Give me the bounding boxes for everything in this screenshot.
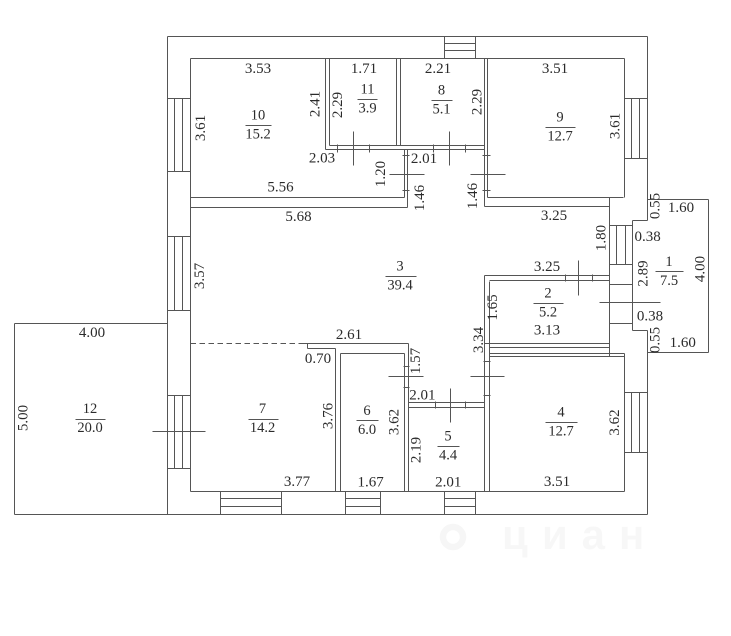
svg-text:1.65: 1.65 [485, 294, 501, 320]
svg-text:3.51: 3.51 [544, 474, 570, 490]
svg-text:циан: циан [502, 511, 658, 558]
room 2 top wall [485, 275, 610, 277]
svg-text:2.29: 2.29 [469, 89, 485, 115]
rooms 11 and 8 bottom wall [330, 145, 485, 147]
svg-text:3.25: 3.25 [541, 208, 567, 224]
svg-text:0.70: 0.70 [305, 351, 331, 367]
svg-text:1.46: 1.46 [465, 182, 481, 209]
svg-text:10: 10 [251, 107, 266, 123]
wall rooms 8/9 and lobby right [484, 59, 486, 207]
room 11 left wall [325, 59, 327, 150]
annex room 1 top wall [648, 199, 709, 201]
window right W6 [625, 392, 648, 394]
annex room 1 bottom wall [648, 352, 709, 354]
svg-text:3.57: 3.57 [192, 262, 208, 289]
room 6 top inner line [341, 353, 405, 355]
svg-text:2.01: 2.01 [435, 475, 461, 491]
svg-text:3.61: 3.61 [193, 115, 209, 141]
wall outer left [167, 37, 169, 515]
svg-text:2.19: 2.19 [408, 437, 424, 463]
niche inner wall line [609, 198, 611, 357]
wall inner right upper [624, 59, 626, 198]
annex room 1 lower step [633, 330, 648, 332]
svg-text:6: 6 [363, 403, 370, 419]
window bottom W8 [345, 492, 347, 515]
watermark cian [443, 511, 658, 558]
svg-text:2.03: 2.03 [309, 151, 335, 167]
wall outer top [168, 36, 648, 38]
svg-text:14.2: 14.2 [250, 420, 275, 436]
door room 8 [449, 132, 451, 166]
svg-text:2.01: 2.01 [411, 151, 437, 167]
door lobby-room 9 [471, 174, 506, 176]
room 9 bottom wall [488, 197, 624, 199]
svg-text:3.34: 3.34 [471, 326, 487, 353]
svg-text:1.67: 1.67 [357, 475, 384, 491]
stub wall 0.70 [308, 348, 336, 350]
svg-text:5.56: 5.56 [267, 179, 294, 195]
wall inner right lower [624, 354, 626, 492]
wall room 7 / room 6 [335, 349, 337, 492]
svg-text:5.1: 5.1 [432, 102, 450, 118]
svg-text:1.46: 1.46 [412, 184, 428, 211]
wall inner bottom [191, 491, 625, 493]
svg-text:12: 12 [83, 401, 98, 417]
window left W1 [168, 98, 191, 100]
wall outer bottom (incl. room 12) [15, 514, 648, 516]
svg-text:1.60: 1.60 [670, 335, 696, 351]
svg-text:1.20: 1.20 [373, 161, 389, 187]
door room 2 leaf [578, 261, 580, 296]
door room 5 leaf [450, 389, 452, 423]
svg-text:7.5: 7.5 [660, 273, 678, 289]
svg-text:2.21: 2.21 [425, 61, 451, 77]
lobby left wall [404, 150, 406, 198]
room 4 top wall [490, 353, 625, 355]
window right W5 [625, 98, 648, 100]
door leaf room 1 [600, 302, 661, 304]
svg-text:1: 1 [665, 254, 672, 270]
svg-text:3.76: 3.76 [320, 402, 336, 429]
svg-text:6.0: 6.0 [358, 422, 376, 438]
svg-text:0.38: 0.38 [634, 229, 660, 245]
wall inner top [191, 58, 625, 60]
door room 4 [471, 376, 505, 378]
svg-text:4.4: 4.4 [439, 448, 458, 464]
door room 6 [389, 376, 424, 378]
svg-text:1.80: 1.80 [593, 225, 609, 251]
dashed partition room 3 / room 7 [191, 343, 301, 345]
svg-text:1.57: 1.57 [408, 347, 424, 374]
balcony-door tick across left wall window W3 [153, 431, 206, 433]
svg-text:2.41: 2.41 [307, 91, 323, 117]
window left W2 [168, 236, 191, 238]
room 5 top wall [409, 402, 485, 404]
annex room 1 left wall line [632, 221, 634, 331]
svg-text:2.01: 2.01 [409, 387, 435, 403]
svg-text:2.89: 2.89 [635, 260, 651, 286]
svg-text:5.2: 5.2 [539, 304, 557, 320]
wall inner left [190, 59, 192, 492]
annex room 12 top wall [15, 323, 168, 325]
svg-text:3.9: 3.9 [358, 100, 376, 116]
svg-text:3.62: 3.62 [607, 409, 623, 435]
svg-text:7: 7 [259, 401, 266, 417]
svg-text:3.51: 3.51 [542, 61, 568, 77]
window bottom W9 [444, 492, 446, 515]
svg-text:4.00: 4.00 [693, 256, 709, 282]
svg-text:2: 2 [544, 285, 551, 301]
svg-text:3.53: 3.53 [245, 61, 271, 77]
svg-text:0.55: 0.55 [648, 193, 664, 219]
svg-text:3.61: 3.61 [607, 113, 623, 139]
svg-text:5.00: 5.00 [15, 405, 31, 431]
svg-text:2.61: 2.61 [336, 327, 362, 343]
wall room 10 / room 3 [191, 197, 405, 199]
svg-text:0.38: 0.38 [637, 309, 663, 325]
svg-text:4: 4 [557, 405, 565, 421]
window left W3 [168, 395, 191, 397]
window bottom W7 [220, 492, 222, 515]
wall outer right upper [647, 37, 649, 221]
niche window [610, 225, 633, 227]
svg-text:3.77: 3.77 [284, 474, 311, 490]
svg-text:15.2: 15.2 [245, 126, 270, 142]
svg-text:5.68: 5.68 [285, 209, 311, 225]
door room 11 [353, 132, 355, 166]
door opening to room 1 [610, 284, 633, 286]
wall rooms 11/8 [396, 59, 398, 146]
svg-text:9: 9 [556, 109, 563, 125]
dimension and room texts [15, 61, 708, 491]
window top W4 [444, 37, 446, 59]
svg-text:2.29: 2.29 [330, 92, 346, 118]
svg-text:1.71: 1.71 [351, 61, 377, 77]
svg-text:4.00: 4.00 [79, 325, 105, 341]
svg-text:0.55: 0.55 [648, 327, 664, 353]
room 2 bottom wall [485, 343, 610, 345]
annex room 12 left wall [14, 324, 16, 515]
svg-text:3: 3 [396, 258, 403, 274]
svg-text:12.7: 12.7 [548, 424, 573, 440]
svg-text:3.13: 3.13 [534, 323, 560, 339]
annex room 1 upper step [633, 220, 648, 222]
svg-text:5: 5 [444, 429, 451, 445]
wall room 7 top [301, 343, 409, 345]
wall room 6 / corridor-room5 [404, 354, 406, 492]
annex room 1 right wall [708, 200, 710, 353]
wall outer right lower [647, 331, 649, 515]
svg-text:3.25: 3.25 [534, 259, 560, 275]
wall rooms 2,4 left [484, 276, 486, 492]
svg-text:1.60: 1.60 [668, 200, 694, 216]
svg-text:20.0: 20.0 [77, 420, 102, 436]
door lobby-niche [390, 174, 425, 176]
svg-text:11: 11 [361, 81, 375, 97]
svg-text:12.7: 12.7 [547, 128, 572, 144]
svg-text:39.4: 39.4 [387, 277, 413, 293]
svg-text:8: 8 [438, 83, 445, 99]
svg-text:3.62: 3.62 [386, 409, 402, 435]
